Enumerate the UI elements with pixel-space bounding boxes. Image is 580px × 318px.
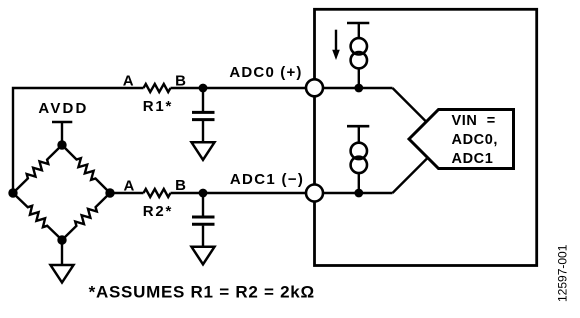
svg-text:AVDD: AVDD <box>38 100 86 117</box>
wire: C2 to ground <box>202 226 204 248</box>
node dot: bridge bottom <box>57 235 66 244</box>
wire: bridge right node to R2 <box>110 192 144 194</box>
wire: rail to I1 <box>358 23 360 39</box>
bridge resistor (top-right arm) <box>62 145 110 193</box>
svg-text:*ASSUMES R1 = R2 = 2kΩ: *ASSUMES R1 = R2 = 2kΩ <box>89 283 315 302</box>
wire: ADC1 diagonal into mux <box>393 158 428 193</box>
pin circle ADC0 <box>306 79 323 96</box>
wire: I1 to ADC0 node <box>358 69 360 88</box>
svg-text:VIN =: VIN = <box>452 113 496 129</box>
capacitor C2 lead wire <box>202 193 204 216</box>
svg-text:B: B <box>175 72 186 89</box>
ADC block box U1 <box>315 9 537 265</box>
junction dot at R1/C1 <box>199 84 208 93</box>
junction dot ADC1/I2 <box>354 189 363 198</box>
resistor R2 <box>144 189 171 197</box>
mux/VIN tag shape <box>409 110 514 169</box>
current source I2 rail bar <box>347 125 369 128</box>
ground (bridge) <box>51 265 74 283</box>
wire: R2 node B to ADC1 pin <box>171 192 315 194</box>
wire: I2 to ADC1 node <box>358 174 360 194</box>
wire: bridge bottom to ground <box>61 240 63 265</box>
wire: ADC1 pin to mux <box>315 192 393 194</box>
wire: rail to I2 <box>358 126 360 143</box>
bridge resistor (top-left arm) <box>13 145 62 193</box>
resistor R1 <box>144 84 171 92</box>
capacitor C2 <box>192 217 215 224</box>
junction dot ADC0/I1 <box>354 84 363 93</box>
current source I1 rail bar <box>347 22 369 25</box>
node dot: bridge top <box>57 140 66 149</box>
ground (below C1) <box>192 142 215 160</box>
wire: C1 to ground <box>202 121 204 143</box>
bridge resistor (bottom-left arm) <box>13 193 62 240</box>
svg-text:B: B <box>175 177 186 194</box>
svg-text:A: A <box>124 178 135 195</box>
wire: ADC0 pin to mux <box>315 87 393 89</box>
current source I2 <box>351 143 367 173</box>
capacitor C1 <box>192 112 215 119</box>
svg-text:A: A <box>123 73 134 90</box>
current source I1 <box>351 38 367 68</box>
wire: top-left loop from bridge left node up and right to R1 <box>13 88 144 193</box>
svg-text:R2*: R2* <box>143 203 172 220</box>
svg-text:ADC0 (+): ADC0 (+) <box>229 64 301 81</box>
svg-text:ADC1: ADC1 <box>452 151 494 167</box>
svg-text:R1*: R1* <box>143 98 172 115</box>
wire: ADC0 diagonal into mux <box>393 88 427 122</box>
pin circle ADC1 <box>306 185 323 202</box>
AVDD supply rail bar <box>52 121 72 124</box>
current direction arrow <box>335 30 337 52</box>
wire: AVDD bar to bridge top node <box>61 122 63 145</box>
capacitor C1 lead wire <box>202 88 204 111</box>
bridge resistor (bottom-right arm) <box>62 193 110 240</box>
svg-text:ADC0,: ADC0, <box>452 132 499 148</box>
ground (below C2) <box>192 247 215 264</box>
node dot: bridge right <box>105 188 114 197</box>
node dot: bridge left <box>8 188 17 197</box>
svg-text:12597-001: 12597-001 <box>556 244 570 302</box>
junction dot at R2/C2 <box>199 189 208 198</box>
wire: R1 node B to ADC0 pin <box>171 87 315 89</box>
